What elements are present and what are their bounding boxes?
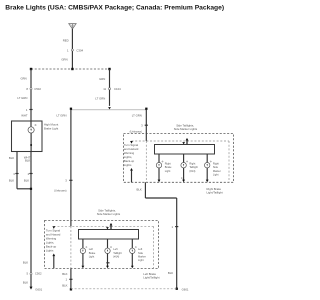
svg-text:11: 11 — [103, 87, 106, 91]
svg-text:C304: C304 — [76, 48, 83, 52]
svg-text:Marker: Marker — [213, 169, 221, 173]
svg-text:Light: Light — [165, 169, 171, 173]
svg-text:GRN: GRN — [20, 77, 26, 81]
svg-text:Light/Taillight: Light/Taillight — [143, 276, 159, 280]
svg-text:LT GRN: LT GRN — [132, 113, 142, 117]
svg-text:(#14): (#14) — [113, 254, 119, 258]
svg-text:Brake: Brake — [165, 165, 172, 169]
svg-text:BLK: BLK — [62, 272, 67, 276]
svg-text:Brake: Brake — [89, 251, 96, 255]
svg-text:Taillight: Taillight — [113, 251, 122, 255]
svg-text:C104: C104 — [114, 87, 121, 91]
svg-text:BLK: BLK — [9, 178, 14, 182]
svg-text:LT GRN: LT GRN — [95, 96, 105, 100]
svg-text:(Unknown): (Unknown) — [130, 129, 142, 133]
svg-text:Light/Taillight: Light/Taillight — [207, 191, 223, 195]
svg-text:BLK: BLK — [62, 284, 67, 288]
svg-text:Marker: Marker — [138, 254, 146, 258]
svg-text:C502: C502 — [34, 87, 41, 91]
svg-text:GRN: GRN — [61, 58, 67, 62]
svg-text:BLK: BLK — [168, 271, 173, 275]
svg-text:BLK: BLK — [9, 156, 14, 160]
svg-text:BLK: BLK — [137, 187, 142, 191]
svg-text:LT GRN: LT GRN — [57, 113, 67, 117]
svg-text:Side: Side — [138, 251, 144, 255]
svg-text:Light: Light — [138, 258, 144, 262]
svg-text:Brake Light: Brake Light — [44, 126, 58, 130]
svg-text:Brake Lights (USA: CMBS/PAX Pa: Brake Lights (USA: CMBS/PAX Package; Can… — [5, 4, 224, 11]
svg-text:WHT: WHT — [21, 113, 28, 117]
svg-text:RED: RED — [63, 39, 69, 43]
svg-text:Right: Right — [189, 162, 195, 166]
svg-text:C502: C502 — [35, 272, 42, 276]
svg-text:Left: Left — [138, 247, 143, 251]
svg-text:BLK: BLK — [23, 260, 28, 264]
svg-text:Side: Side — [213, 165, 219, 169]
svg-text:Right: Right — [165, 162, 171, 166]
svg-text:BLK: BLK — [24, 178, 29, 182]
svg-text:Side Marker Lights: Side Marker Lights — [174, 127, 198, 131]
svg-text:Left: Left — [113, 247, 118, 251]
svg-text:G601: G601 — [35, 288, 42, 292]
svg-text:Lights: Lights — [124, 163, 132, 167]
svg-text:Taillight: Taillight — [189, 165, 198, 169]
svg-text:Light: Light — [213, 172, 219, 176]
svg-text:G601: G601 — [182, 288, 189, 292]
svg-text:Left: Left — [89, 247, 94, 251]
svg-text:LT GRN: LT GRN — [17, 96, 27, 100]
svg-text:Light: Light — [89, 254, 95, 258]
svg-text:Side Marker Lights: Side Marker Lights — [97, 212, 121, 216]
svg-text:BLK: BLK — [23, 280, 28, 284]
svg-text:BLK: BLK — [25, 158, 30, 162]
svg-text:GRN: GRN — [99, 77, 105, 81]
svg-text:(Unknown): (Unknown) — [54, 188, 66, 192]
svg-text:Lights: Lights — [46, 248, 54, 252]
svg-text:(#14): (#14) — [189, 169, 195, 173]
svg-text:Right: Right — [213, 162, 219, 166]
